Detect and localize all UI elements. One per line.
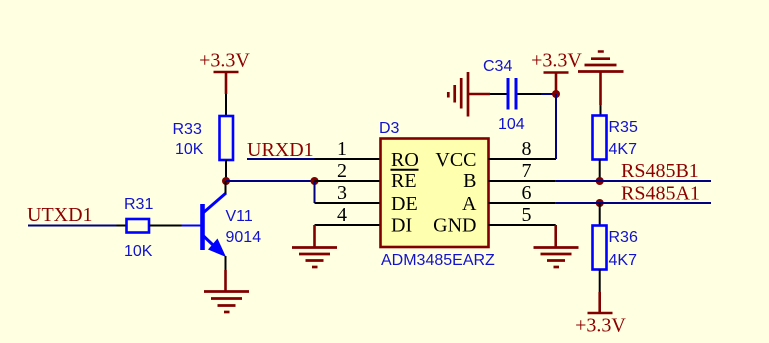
svg-text:R31: R31 <box>124 196 153 213</box>
svg-text:B: B <box>463 170 476 192</box>
svg-text:VCC: VCC <box>435 149 476 171</box>
wire (C34 to node) <box>518 93 542 95</box>
svg-text:D3: D3 <box>379 120 400 137</box>
node junction (pin2/pin3 tie) <box>311 177 319 185</box>
wire (R33 bottom to node) <box>225 160 227 181</box>
pin 7 wire <box>489 180 556 182</box>
wire (ground to C34) <box>490 93 507 95</box>
wire RS485B1 <box>556 180 711 182</box>
wire (R31 right pin to base) <box>149 225 182 227</box>
svg-text:8: 8 <box>522 138 532 160</box>
IC D3 ADM3485EARZ body <box>379 120 495 269</box>
resistor R33 <box>173 116 234 160</box>
svg-text:10K: 10K <box>175 141 204 158</box>
ground (top right, flipped up) <box>578 52 624 106</box>
svg-text:4K7: 4K7 <box>609 141 638 158</box>
wire UTXD1 <box>28 225 117 227</box>
svg-text:DI: DI <box>391 215 412 237</box>
ground (left of C34, rotated) <box>448 72 490 117</box>
ground (below pin 5 GND) <box>534 225 579 267</box>
node junction (A line) <box>596 199 604 207</box>
svg-text:V11: V11 <box>226 208 253 225</box>
wire (to R31 left pin) <box>117 225 127 227</box>
resistor R36 <box>593 226 638 270</box>
ground (below pin 4 DI) <box>292 225 337 267</box>
svg-text:4K7: 4K7 <box>609 252 638 269</box>
svg-text:DE: DE <box>391 193 418 215</box>
pin 2 wire <box>315 180 381 182</box>
wire (emitter down) <box>225 256 227 270</box>
node junction (B line) <box>596 177 604 185</box>
transistor V11 9014 <box>182 193 262 257</box>
resistor R31 <box>124 196 153 260</box>
svg-text:RE: RE <box>391 170 417 192</box>
svg-text:URXD1: URXD1 <box>247 139 314 161</box>
wire (R35 bottom to B line) <box>599 160 601 182</box>
svg-text:RS485A1: RS485A1 <box>621 183 700 205</box>
svg-text:ADM3485EARZ: ADM3485EARZ <box>381 252 495 269</box>
svg-text:+3.3V: +3.3V <box>199 50 250 72</box>
wire (collector up to node) <box>225 181 227 194</box>
svg-text:6: 6 <box>522 182 532 204</box>
wire (power to R33 top) <box>225 94 227 116</box>
svg-text:GND: GND <box>433 215 476 237</box>
node junction (collector node) <box>222 177 230 185</box>
wire URXD1 <box>247 158 315 160</box>
svg-text:5: 5 <box>522 204 532 226</box>
pin 4 wire <box>315 224 381 226</box>
wire (pin2 node down to pin3) <box>314 181 316 203</box>
svg-text:RS485B1: RS485B1 <box>621 160 699 182</box>
svg-text:9014: 9014 <box>226 229 262 246</box>
wire RS485A1 <box>556 202 711 204</box>
svg-text:7: 7 <box>522 160 532 182</box>
pin 5 wire <box>489 224 556 226</box>
resistor R35 <box>593 116 638 160</box>
svg-text:RO: RO <box>391 149 419 171</box>
svg-text:10K: 10K <box>124 243 153 260</box>
node junction (VCC node) <box>552 90 560 98</box>
power +3.3V (VCC node) <box>531 50 582 95</box>
capacitor C34 104 <box>483 58 525 133</box>
svg-text:+3.3V: +3.3V <box>531 50 582 72</box>
svg-text:A: A <box>462 193 477 215</box>
wire (A line to R36 top) <box>599 203 601 226</box>
pin 6 wire <box>489 202 556 204</box>
svg-text:104: 104 <box>498 116 525 133</box>
svg-text:R36: R36 <box>609 229 638 246</box>
wire (VCC node down to pin 8) <box>555 94 557 159</box>
ground (below V11) <box>204 270 249 312</box>
svg-text:2: 2 <box>337 160 347 182</box>
wire (R36 bottom to power) <box>599 270 601 293</box>
svg-text:R33: R33 <box>173 121 202 138</box>
svg-text:3: 3 <box>337 182 347 204</box>
svg-text:4: 4 <box>337 204 347 226</box>
pin 1 wire <box>315 158 381 160</box>
pin name RE (overbar) <box>391 170 419 192</box>
svg-text:+3.3V: +3.3V <box>575 315 626 337</box>
power +3.3V (top of R33) <box>199 50 250 95</box>
pin 8 wire <box>489 158 557 160</box>
pin 3 wire <box>315 202 381 204</box>
wire (ground to R35 top) <box>600 105 602 116</box>
svg-text:UTXD1: UTXD1 <box>27 204 93 226</box>
svg-text:C34: C34 <box>483 58 512 75</box>
wire <box>541 93 556 95</box>
svg-text:1: 1 <box>337 138 347 160</box>
wire (node to pin2 node) <box>226 180 315 182</box>
svg-text:R35: R35 <box>609 119 638 136</box>
power +3.3V (bottom of R36) <box>575 292 626 337</box>
